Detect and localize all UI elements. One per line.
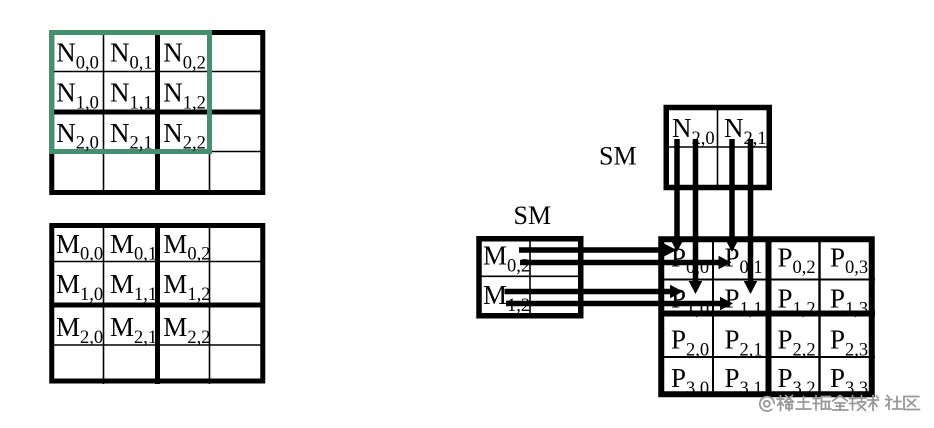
- svg-text:M1,0: M1,0: [56, 269, 103, 305]
- svg-text:N2,1: N2,1: [110, 118, 153, 154]
- matrix N grid: [50, 30, 266, 195]
- svg-text:M0,1: M0,1: [110, 229, 157, 265]
- svg-text:N1,1: N1,1: [110, 78, 153, 114]
- svg-text:M2,2: M2,2: [163, 312, 210, 348]
- green SM tile highlight on N: [52, 33, 210, 152]
- svg-text:P2,3: P2,3: [830, 325, 868, 361]
- svg-text:M0,0: M0,0: [56, 229, 103, 265]
- watermark @稀土掘金技术社区: [760, 396, 920, 412]
- svg-text:P2,2: P2,2: [778, 325, 816, 361]
- svg-text:SM: SM: [514, 201, 552, 230]
- svg-text:N2,2: N2,2: [163, 118, 206, 154]
- svg-text:M0,2: M0,2: [483, 241, 530, 277]
- shared-memory N tile grid: [664, 105, 772, 190]
- arrow h2 M0,2 to P0,1: [520, 256, 732, 270]
- svg-text:P2,1: P2,1: [725, 325, 763, 361]
- arrow v4 N2,1 to P1,1: [744, 139, 758, 294]
- svg-text:N0,2: N0,2: [163, 38, 206, 74]
- svg-text:M2,1: M2,1: [110, 312, 157, 348]
- svg-text:M1,2: M1,2: [163, 269, 210, 305]
- arrow v3 N2,1 to P0,1: [725, 139, 739, 252]
- svg-text:M2,0: M2,0: [56, 312, 103, 348]
- svg-text:N0,1: N0,1: [110, 38, 153, 74]
- arrow v2 N2,0 to P1,0: [689, 139, 703, 294]
- arrow h1 M0,2 to P0,0: [519, 243, 677, 257]
- svg-text:M1,1: M1,1: [110, 269, 157, 305]
- arrow v1 N2,0 to P0,0: [670, 139, 684, 252]
- svg-text:N1,2: N1,2: [163, 78, 206, 114]
- matrix P grid: [659, 237, 876, 398]
- svg-text:P2,0: P2,0: [671, 325, 709, 361]
- svg-text:N2,0: N2,0: [56, 118, 99, 154]
- svg-text:P0,3: P0,3: [830, 242, 868, 278]
- svg-text:N0,0: N0,0: [56, 38, 99, 74]
- svg-text:M0,2: M0,2: [163, 229, 210, 265]
- arrow h4 M1,2 to P1,1: [506, 297, 733, 311]
- svg-text:N1,0: N1,0: [56, 78, 99, 114]
- arrow h3 M1,2 to P1,0: [505, 285, 684, 299]
- matrix M grid: [50, 223, 266, 384]
- svg-text:M1,2: M1,2: [483, 280, 530, 316]
- svg-text:SM: SM: [599, 142, 637, 171]
- shared-memory M tile grid: [477, 236, 583, 318]
- svg-text:P0,2: P0,2: [778, 242, 816, 278]
